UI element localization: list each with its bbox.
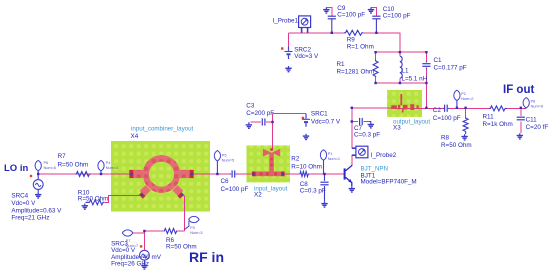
resistor R10 xyxy=(82,200,105,209)
I_Probe1 xyxy=(299,16,311,33)
wire collector to X3 xyxy=(352,107,418,109)
capacitor C1 xyxy=(422,61,430,68)
wire C9 ground link xyxy=(327,7,332,16)
svg-text:R2: R2 xyxy=(291,155,300,162)
label C10 xyxy=(383,6,411,20)
layout block X2 (input_layout) green substrate xyxy=(247,145,291,182)
port P4 xyxy=(98,160,104,174)
label P1 xyxy=(328,152,340,161)
label P6 xyxy=(44,161,56,170)
svg-text:Num=8: Num=8 xyxy=(531,104,543,108)
svg-text:IF out: IF out xyxy=(503,84,534,96)
svg-text:X4: X4 xyxy=(131,133,139,140)
svg-text:P8: P8 xyxy=(531,100,536,104)
label P3 xyxy=(190,226,202,235)
wire SRC3 drop xyxy=(143,231,145,250)
capacitor C2 xyxy=(443,105,449,112)
wire tank outline xyxy=(376,52,427,83)
svg-text:L1: L1 xyxy=(402,68,410,75)
label input_combiner_layout X4 xyxy=(131,126,194,140)
capacitor C8 xyxy=(320,174,328,207)
svg-text:Vdc=3 V: Vdc=3 V xyxy=(294,53,319,60)
svg-text:C11: C11 xyxy=(526,116,538,123)
svg-text:P3: P3 xyxy=(190,226,195,230)
svg-text:C=200 pF: C=200 pF xyxy=(246,110,274,117)
svg-text:Num=6: Num=6 xyxy=(44,166,56,170)
svg-text:X2: X2 xyxy=(254,192,262,199)
wire RF leg down xyxy=(183,196,185,232)
wire SRC2 drop xyxy=(288,33,290,47)
svg-text:Num=3: Num=3 xyxy=(190,231,202,235)
svg-text:R11: R11 xyxy=(483,114,495,121)
svg-text:Num=2: Num=2 xyxy=(461,97,473,101)
source SRC4 xyxy=(30,174,43,198)
svg-text:C2: C2 xyxy=(433,107,442,114)
label C7 xyxy=(354,125,380,139)
source SRC3 xyxy=(140,245,150,269)
wire C3 to SRC1 xyxy=(251,114,307,123)
capacitor C3 xyxy=(246,118,265,128)
resistor R7 xyxy=(75,172,91,177)
resistor R2 xyxy=(299,172,309,177)
svg-text:C3: C3 xyxy=(246,103,255,110)
svg-text:R=1k Ohm: R=1k Ohm xyxy=(483,121,513,128)
label C2 xyxy=(433,107,461,122)
capacitor C7 xyxy=(360,118,374,128)
svg-text:R=50 Ohm: R=50 Ohm xyxy=(58,161,89,168)
X3 red microstrip pattern xyxy=(391,94,419,112)
svg-text:P6: P6 xyxy=(44,161,49,165)
svg-text:R=50 Ohm: R=50 Ohm xyxy=(166,244,197,251)
label R8 xyxy=(441,134,472,149)
wire LO rail xyxy=(38,173,133,175)
svg-text:X3: X3 xyxy=(393,125,401,132)
svg-text:I_Probe1: I_Probe1 xyxy=(273,17,299,24)
label SRC3 xyxy=(111,241,162,268)
label P8 xyxy=(531,100,543,109)
svg-text:R=10 Ohm: R=10 Ohm xyxy=(291,163,322,170)
label R6 xyxy=(166,237,197,250)
svg-text:C=0.3 pF: C=0.3 pF xyxy=(354,132,380,139)
port P6 LO xyxy=(35,160,41,174)
label P5 xyxy=(222,153,234,162)
svg-text:R=1281 Ohm: R=1281 Ohm xyxy=(337,68,375,75)
svg-text:SRC4: SRC4 xyxy=(11,192,28,199)
wire X2 to base xyxy=(285,173,344,175)
X2 pin dots xyxy=(253,173,285,175)
label R1 xyxy=(337,61,375,75)
svg-text:Vdc=0 V: Vdc=0 V xyxy=(11,200,36,207)
X4 pin dots xyxy=(130,173,193,196)
port P5 xyxy=(214,151,220,174)
label SRC4 xyxy=(11,192,62,221)
svg-text:Amplitude=0.63 V: Amplitude=0.63 V xyxy=(11,207,62,214)
label C6 xyxy=(221,178,249,193)
wire tank drop xyxy=(425,83,427,108)
svg-text:P2: P2 xyxy=(461,92,466,96)
svg-text:I_Probe2: I_Probe2 xyxy=(371,152,397,159)
label C11 xyxy=(526,116,549,131)
wire X3 to C2 junction xyxy=(418,107,443,109)
wire interstage combiner to X2 xyxy=(194,173,253,175)
svg-text:P5: P5 xyxy=(222,153,227,157)
source SRC2 xyxy=(281,47,293,72)
svg-text:Num=1: Num=1 xyxy=(328,157,340,161)
port P8 IF out xyxy=(523,98,529,109)
svg-text:C6: C6 xyxy=(221,178,230,185)
wire R8 drop xyxy=(465,108,467,117)
label L1 xyxy=(402,68,428,83)
port P3 xyxy=(184,216,199,229)
svg-text:R=50 Ohm: R=50 Ohm xyxy=(441,142,472,149)
capacitor C6 xyxy=(230,170,237,177)
wire C11 drop xyxy=(520,108,522,133)
resistor R8 xyxy=(461,117,468,140)
svg-text:C=0.177 pF: C=0.177 pF xyxy=(434,65,467,72)
label R9 xyxy=(347,37,374,51)
port P7 RF xyxy=(122,230,132,236)
label R2 xyxy=(291,155,322,170)
svg-text:C=100 pF: C=100 pF xyxy=(221,186,249,193)
wire IF row xyxy=(449,107,526,109)
label input_layout X2 xyxy=(254,185,288,198)
resistor R11 xyxy=(489,106,507,111)
wire C10 ground link xyxy=(371,7,376,16)
svg-text:C=100 pF: C=100 pF xyxy=(337,12,365,19)
label C9 xyxy=(337,5,365,19)
svg-text:Model=BFP740F_M: Model=BFP740F_M xyxy=(361,179,417,186)
ground emitter xyxy=(349,186,355,192)
X4 ring texture overlay xyxy=(133,155,190,193)
wire X2 top feed xyxy=(272,114,274,150)
label C8 xyxy=(300,181,326,195)
transistor BJT1 xyxy=(344,165,352,186)
label P7 xyxy=(126,239,138,248)
resistor R1 xyxy=(373,60,378,78)
label SRC1 xyxy=(311,110,341,125)
svg-text:C=100 pF: C=100 pF xyxy=(383,12,411,19)
svg-text:C1: C1 xyxy=(434,57,443,64)
svg-text:LO in: LO in xyxy=(4,163,28,174)
label output_layout X3 xyxy=(393,118,430,131)
X4 port bars xyxy=(129,170,193,199)
label R7 xyxy=(58,153,89,168)
label C3 xyxy=(246,103,274,118)
svg-text:Freq=21 GHz: Freq=21 GHz xyxy=(11,215,49,222)
I_Probe2 xyxy=(352,146,368,158)
svg-text:Freq=26 GHz: Freq=26 GHz xyxy=(111,260,149,267)
wire RF row xyxy=(133,231,185,233)
svg-text:C=0.3 pF: C=0.3 pF xyxy=(300,187,326,194)
wire C7 stub xyxy=(352,121,369,123)
svg-text:R=1 Ohm: R=1 Ohm xyxy=(347,43,374,50)
label SRC2 xyxy=(294,46,319,60)
label R10 xyxy=(78,189,109,202)
svg-text:Num=5: Num=5 xyxy=(222,158,234,162)
svg-text:P1: P1 xyxy=(328,152,333,156)
svg-text:L=5.1 nH: L=5.1 nH xyxy=(402,76,428,83)
label P2 xyxy=(461,92,473,101)
svg-text:C=20 fF: C=20 fF xyxy=(526,124,549,131)
svg-text:P4: P4 xyxy=(106,161,111,165)
resistor R9 xyxy=(344,30,363,35)
svg-text:Vdc=0.7 V: Vdc=0.7 V xyxy=(311,118,341,125)
capacitor C9 xyxy=(323,7,336,33)
svg-text:Num=4: Num=4 xyxy=(106,166,118,170)
port P2 xyxy=(454,90,460,108)
label C1 xyxy=(434,57,467,71)
resistor R6 xyxy=(163,229,178,234)
capacitor C11 xyxy=(517,117,525,139)
inductor L1 xyxy=(400,56,402,78)
svg-text:input_combiner_layout: input_combiner_layout xyxy=(131,126,194,133)
X2 red tee with radial stub xyxy=(252,149,285,177)
layout block X4 (input_combiner_layout) green substrate xyxy=(111,141,210,212)
source SRC1 xyxy=(302,114,310,140)
label P4 xyxy=(106,161,118,170)
svg-text:R=50 Ohm: R=50 Ohm xyxy=(78,196,109,203)
capacitor C10 xyxy=(368,7,381,33)
wire collector riser xyxy=(351,108,353,165)
svg-text:RF in: RF in xyxy=(189,249,224,265)
svg-text:R8: R8 xyxy=(441,134,450,141)
svg-text:R1: R1 xyxy=(337,61,346,68)
label BJT1 xyxy=(361,166,417,186)
label R11 xyxy=(483,114,513,129)
X2 port bars xyxy=(252,148,285,176)
layout block X3 (output_layout) green substrate xyxy=(387,90,422,117)
X4 red ring resonator xyxy=(133,155,190,196)
wire R10 branch xyxy=(86,195,142,202)
wire top rail xyxy=(289,33,400,52)
svg-text:C=100 pF: C=100 pF xyxy=(433,115,461,122)
svg-text:R7: R7 xyxy=(58,153,67,160)
svg-text:SRC1: SRC1 xyxy=(311,110,328,117)
port P1 xyxy=(320,150,326,174)
